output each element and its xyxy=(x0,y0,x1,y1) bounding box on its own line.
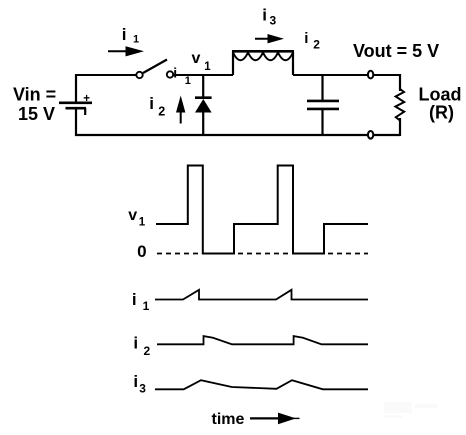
diode D1 xyxy=(195,98,212,113)
svg-text:3: 3 xyxy=(139,382,146,396)
svg-text:0: 0 xyxy=(137,242,146,261)
waveform i1 xyxy=(155,290,368,300)
svg-text:v: v xyxy=(192,50,201,67)
battery Vin xyxy=(59,93,92,115)
output terminal bottom xyxy=(368,131,373,139)
wire left vertical upper xyxy=(75,74,77,102)
svg-text:2: 2 xyxy=(144,344,151,358)
svg-text:i: i xyxy=(149,94,154,113)
svg-text:Vin =: Vin = xyxy=(13,85,56,105)
label i2 at diode xyxy=(149,94,165,119)
svg-text:i: i xyxy=(304,30,308,47)
svg-text:Load: Load xyxy=(419,85,462,105)
output terminal top xyxy=(368,71,373,79)
resistor Load R zigzag xyxy=(395,89,404,121)
svg-text:1: 1 xyxy=(143,299,150,313)
label i1 above switch xyxy=(122,25,139,46)
svg-text:+: + xyxy=(83,93,90,105)
svg-text:1: 1 xyxy=(139,217,146,229)
wire bottom rail xyxy=(75,134,400,136)
inductor L1 xyxy=(232,51,294,75)
switch S1 right contact xyxy=(167,71,173,77)
svg-text:i: i xyxy=(173,65,177,81)
label v1 waveform axis xyxy=(128,207,146,229)
arrow i1 direction xyxy=(108,46,144,56)
watermark xyxy=(384,402,437,418)
svg-text:i: i xyxy=(133,372,138,391)
waveform i2 xyxy=(157,336,368,344)
label i1 at switch output xyxy=(173,65,191,88)
switch S1 lever xyxy=(143,60,167,74)
wire diode branch upper xyxy=(202,75,204,98)
svg-text:v: v xyxy=(128,207,137,224)
wire left vertical lower xyxy=(75,108,77,136)
arrow i2 diode current xyxy=(176,96,185,124)
node v1 label xyxy=(192,50,212,73)
waveform i3 xyxy=(155,380,368,389)
label i1 waveform axis xyxy=(132,290,150,313)
wire top rail from battery to switch xyxy=(75,74,137,76)
wire right vertical lower xyxy=(399,118,401,136)
label i2 after inductor xyxy=(304,30,320,51)
zero baseline dashed xyxy=(157,253,368,255)
svg-text:i: i xyxy=(262,5,267,24)
svg-text:1: 1 xyxy=(185,75,191,87)
svg-text:i: i xyxy=(133,334,138,353)
svg-text:1: 1 xyxy=(133,34,139,46)
switch S1 left contact xyxy=(136,72,142,78)
svg-text:Vout = 5 V: Vout = 5 V xyxy=(353,41,439,61)
svg-text:i: i xyxy=(132,290,137,309)
label i3 waveform axis xyxy=(133,372,146,396)
svg-text:15 V: 15 V xyxy=(18,104,55,124)
arrow i3 direction xyxy=(255,34,284,43)
label i2 waveform axis xyxy=(133,334,150,359)
svg-text:2: 2 xyxy=(313,37,320,51)
svg-text:2: 2 xyxy=(158,105,165,119)
arrow time axis xyxy=(250,413,300,425)
wire top rail from inductor to load corner xyxy=(293,74,400,76)
svg-text:3: 3 xyxy=(270,14,277,28)
wire top rail from switch to inductor xyxy=(174,74,234,76)
label i3 above inductor xyxy=(262,5,276,27)
wire right vertical upper xyxy=(399,74,401,91)
svg-text:i: i xyxy=(122,25,127,44)
svg-text:(R): (R) xyxy=(429,103,454,123)
waveform v1 xyxy=(156,166,368,254)
svg-text:1: 1 xyxy=(204,61,211,73)
capacitor C1 xyxy=(307,75,339,136)
svg-text:time: time xyxy=(212,411,245,428)
wire diode branch lower xyxy=(202,112,204,136)
